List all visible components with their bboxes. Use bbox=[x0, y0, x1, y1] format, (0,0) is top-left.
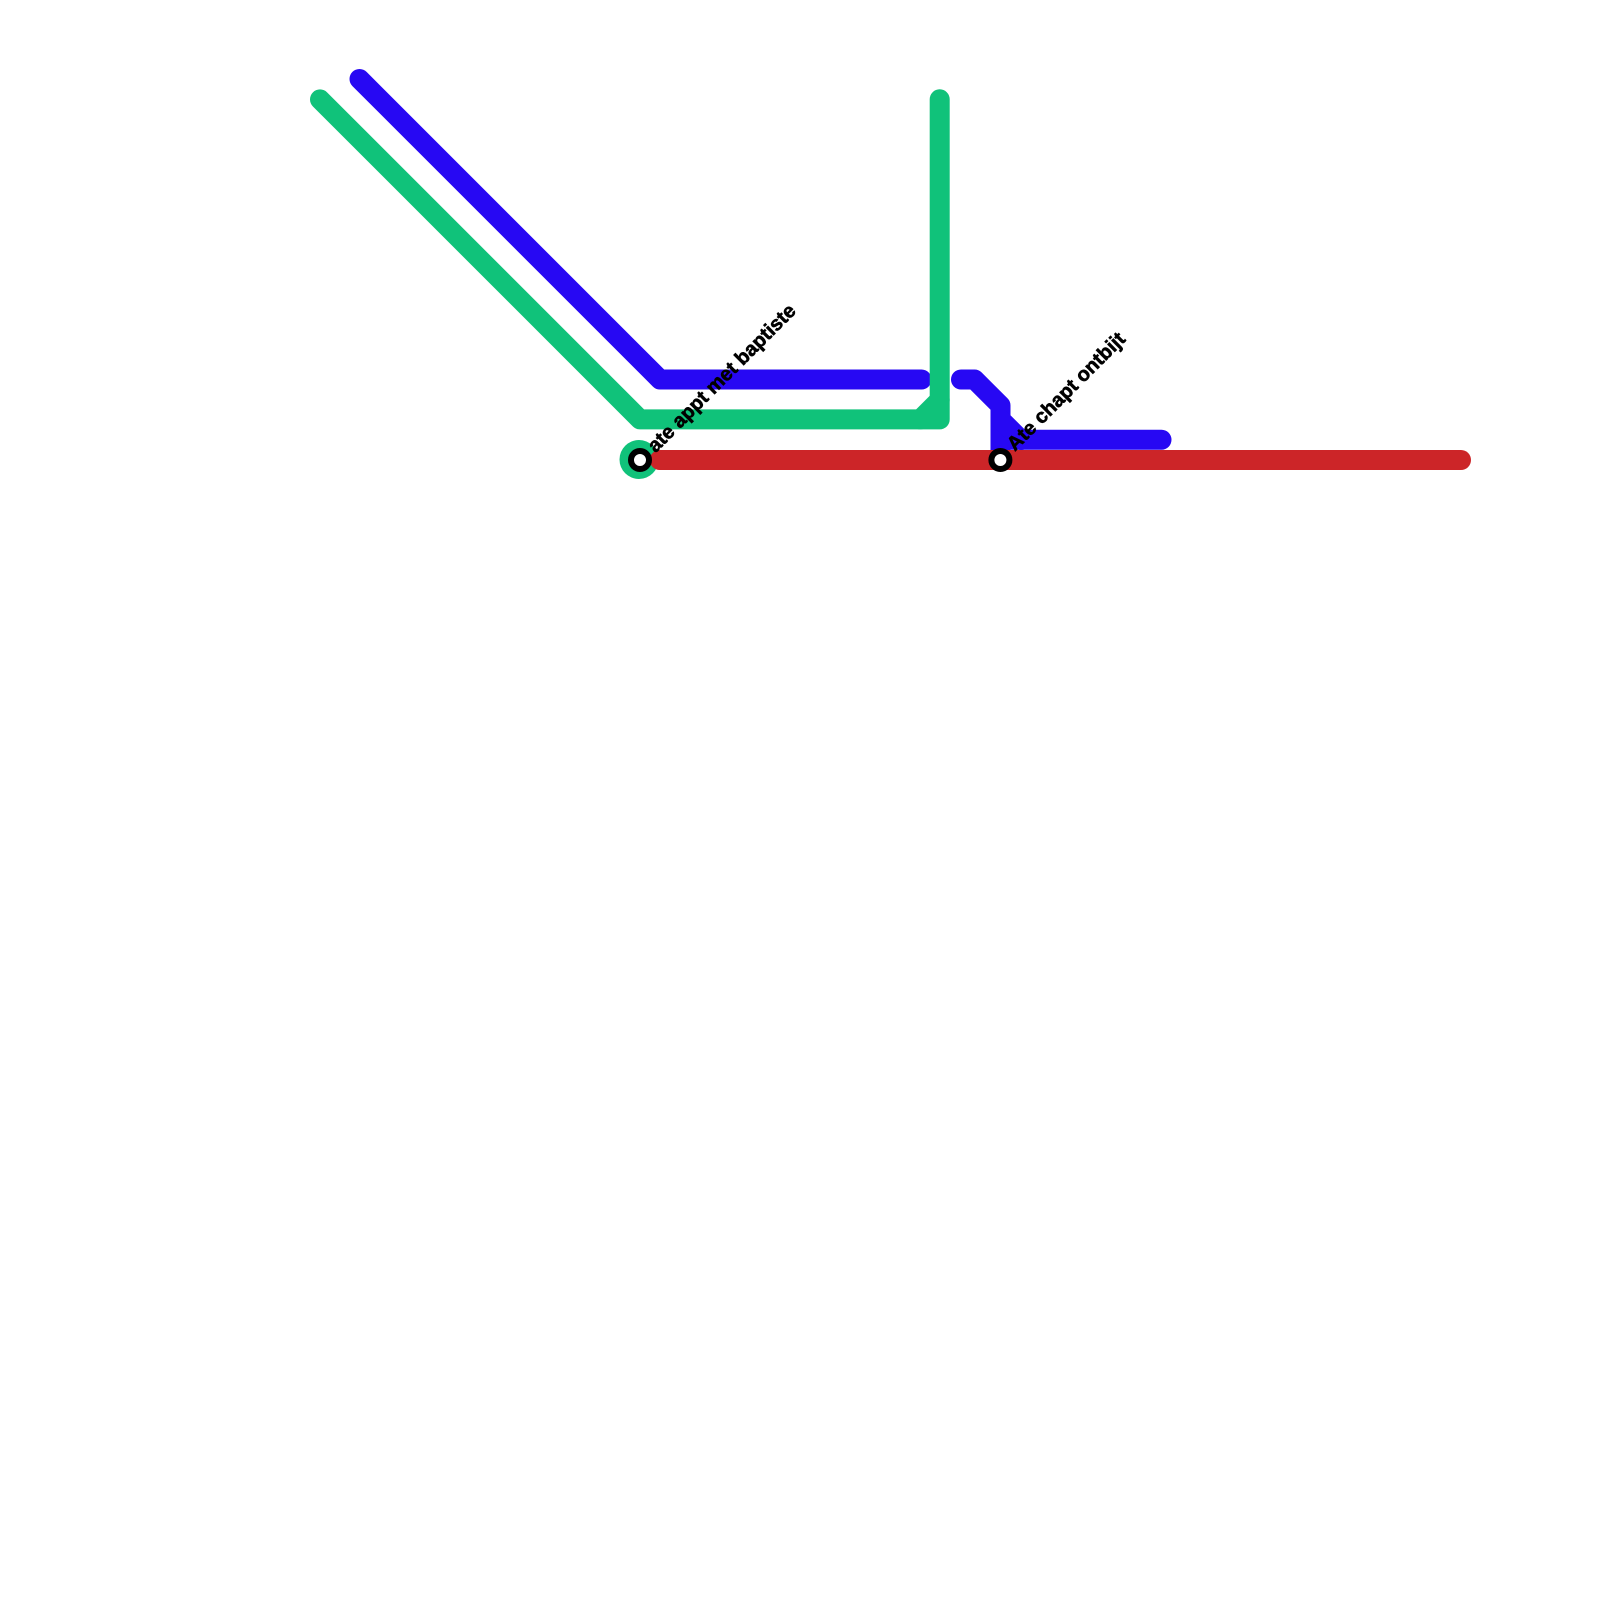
blue stub down to station 2 bbox=[991, 438, 1011, 450]
station 2 ring marker bbox=[991, 451, 1009, 469]
green line (diagonal from top-left, horizontal, corner up to vertical) bbox=[320, 99, 940, 419]
blue corner chamfer at station 2 jog bbox=[1001, 419, 1022, 440]
station 1 green terminus disc bbox=[620, 440, 659, 479]
blue line segment A (diagonal from top-left, then horizontal, ends at green crossing) bbox=[360, 79, 922, 380]
blue line segment B (resumes right of green crossing, jogs down, horizontal to its end) bbox=[961, 380, 1162, 440]
red line (horizontal) bbox=[660, 450, 1461, 470]
green corner chamfer at vertical junction bbox=[920, 400, 940, 420]
station 1 ring marker bbox=[631, 451, 649, 469]
